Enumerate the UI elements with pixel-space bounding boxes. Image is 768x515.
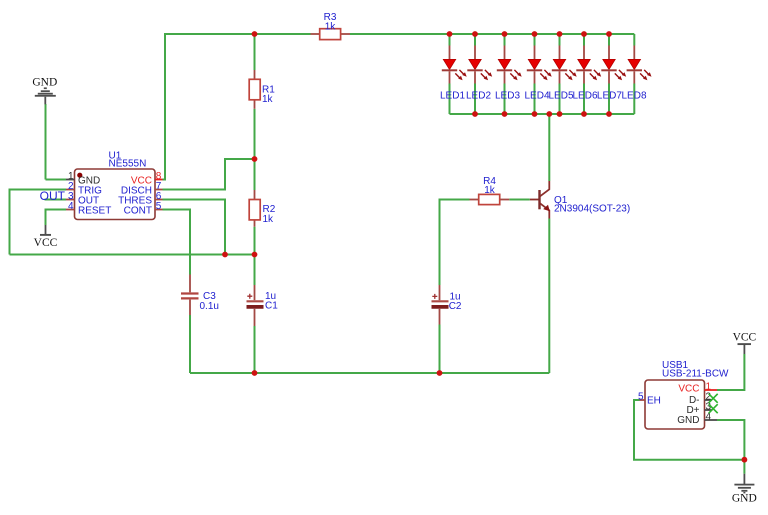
resistor R2	[249, 190, 276, 227]
wire C2 to bottom rail	[439, 325, 441, 374]
wire U1 pin7 DISCH to R1-R2 junction	[163, 159, 255, 190]
USB1 pin 5 EH	[638, 391, 661, 406]
svg-text:LED6: LED6	[572, 90, 597, 101]
svg-text:1k: 1k	[484, 185, 496, 196]
U1 pin 5 CONT	[124, 201, 163, 217]
connector USB1 USB-211-BCW body	[645, 360, 729, 429]
junction LED4 bottom	[532, 111, 538, 117]
LED5	[548, 34, 576, 114]
junction LED6 bottom	[581, 111, 587, 117]
svg-text:C2: C2	[449, 301, 462, 312]
junction C1 top node	[252, 252, 258, 258]
svg-text:EH: EH	[647, 395, 661, 406]
svg-text:LED2: LED2	[466, 90, 491, 101]
power flag VCC left	[34, 225, 58, 249]
svg-text:USB-211-BCW: USB-211-BCW	[662, 369, 729, 380]
svg-text:NE555N: NE555N	[109, 159, 147, 170]
wire main column R1 to R2	[254, 109, 256, 190]
wire top rail right of R3	[350, 33, 634, 35]
svg-text:VCC: VCC	[678, 383, 699, 394]
LED6	[572, 34, 601, 114]
U1 pin 2 TRIG	[66, 181, 102, 197]
wire OUT stub	[45, 199, 67, 201]
wire LED bottom rail	[450, 113, 635, 115]
svg-text:1k: 1k	[325, 21, 337, 32]
wire main column R2 to C1	[254, 227, 256, 285]
junction LED5 top	[557, 31, 563, 37]
svg-text:CONT: CONT	[124, 205, 152, 216]
svg-text:VCC: VCC	[733, 331, 757, 343]
junction LED1 top	[447, 31, 453, 37]
ground symbol top-left	[32, 76, 57, 104]
transistor Q1 2N3904	[530, 181, 630, 219]
wire USB pin5 EH to GND net	[634, 400, 744, 460]
U1 pin 1 GND	[66, 171, 100, 187]
resistor R4	[470, 176, 510, 205]
U1 pin 6 THRES	[118, 191, 162, 207]
svg-text:LED5: LED5	[548, 90, 573, 101]
junction R1-R2 DISCH node	[252, 156, 258, 162]
U1 pin 3 OUT	[66, 191, 99, 207]
wire LED rail drop to Q1 collector	[548, 114, 550, 181]
svg-text:C1: C1	[265, 301, 278, 312]
svg-text:RESET: RESET	[78, 205, 111, 216]
svg-text:LED1: LED1	[440, 90, 465, 101]
svg-text:1k: 1k	[263, 214, 275, 225]
svg-text:GND: GND	[732, 493, 757, 505]
svg-text:1k: 1k	[262, 94, 274, 105]
LED2	[466, 34, 492, 114]
USB1 pin 3 D+	[686, 401, 712, 416]
USB1 pin 1 VCC	[678, 381, 717, 394]
junction THRES at horizontal net	[222, 252, 228, 258]
junction collector drop	[546, 111, 552, 117]
op-amp timer U1 NE555N body	[75, 150, 156, 219]
svg-text:0.1u: 0.1u	[200, 301, 219, 312]
junction LED2 top	[472, 31, 478, 37]
U1 pin 7 DISCH	[121, 181, 163, 197]
no-connect X on USB pin 3	[709, 404, 718, 413]
LED1	[440, 34, 467, 114]
U1 pin 8 VCC	[131, 171, 163, 187]
LED7	[597, 34, 626, 114]
wire R4 left to C2	[440, 200, 470, 286]
LED4	[524, 34, 551, 114]
wire Q1 emitter down	[548, 219, 550, 374]
svg-text:GND: GND	[32, 76, 57, 88]
junction LED7 bottom	[606, 111, 612, 117]
USB1 pin 2 D-	[689, 391, 712, 406]
wire main column above R1	[254, 34, 256, 70]
capacitor C1 1u polarized	[247, 285, 279, 326]
wire USB pin4 to GND flag	[717, 420, 744, 474]
svg-text:LED8: LED8	[621, 90, 646, 101]
junction LED3 top	[502, 31, 508, 37]
wire U1 pin4 RESET to VCC	[46, 210, 67, 226]
svg-text:LED3: LED3	[495, 90, 520, 101]
svg-text:4: 4	[68, 201, 74, 212]
junction LED3 bottom	[502, 111, 508, 117]
ground symbol bottom-right	[732, 474, 757, 505]
power flag VCC right (USB)	[733, 331, 757, 354]
junction LED4 top	[532, 31, 538, 37]
USB1 pin 4 GND	[677, 411, 717, 426]
junction LED2 bottom	[472, 111, 478, 117]
wire C3 down to bottom rail	[189, 315, 191, 373]
LED3	[495, 34, 522, 114]
wire GND-left vertical	[45, 104, 47, 180]
svg-text:GND: GND	[677, 415, 699, 426]
svg-text:5: 5	[638, 391, 644, 402]
svg-text:LED4: LED4	[524, 90, 549, 101]
wire U1 pin8 VCC up to top rail	[163, 34, 311, 180]
junction LED5 bottom	[557, 111, 563, 117]
junction C1 bottom rail	[252, 370, 258, 376]
no-connect X on USB pin 2	[709, 394, 718, 403]
junction LED7 top	[606, 31, 612, 37]
capacitor C2 1u polarized	[432, 285, 462, 325]
svg-text:LED7: LED7	[597, 90, 622, 101]
junction C2 bottom rail	[437, 370, 443, 376]
svg-text:5: 5	[156, 201, 162, 212]
svg-text:VCC: VCC	[34, 237, 58, 249]
wire U1 pin2 TRIG to left rail	[10, 190, 67, 255]
wire U1 pin1 to GND	[46, 179, 67, 181]
wire U1 pin5 CONT to C3	[163, 210, 191, 275]
svg-text:OUT: OUT	[40, 189, 66, 203]
wire TRIG-THRES-C1 horizontal net	[10, 254, 255, 256]
wire main column C1 to bottom rail	[254, 326, 256, 373]
junction LED6 top	[581, 31, 587, 37]
U1 pin 4 RESET	[66, 201, 111, 217]
wire USB pin1 to VCC flag	[717, 354, 744, 390]
junction at R3 left node	[252, 31, 258, 37]
svg-text:2N3904(SOT-23): 2N3904(SOT-23)	[554, 204, 630, 215]
junction USB GND net	[742, 457, 748, 463]
wire R4 right to Q1 base	[509, 199, 530, 201]
resistor R3	[311, 12, 351, 40]
LED8	[621, 34, 651, 114]
resistor R1	[249, 70, 275, 109]
wire U1 pin6 THRES down	[163, 200, 226, 255]
capacitor C3 0.1u	[181, 275, 219, 316]
wire bottom ground rail	[190, 372, 549, 374]
